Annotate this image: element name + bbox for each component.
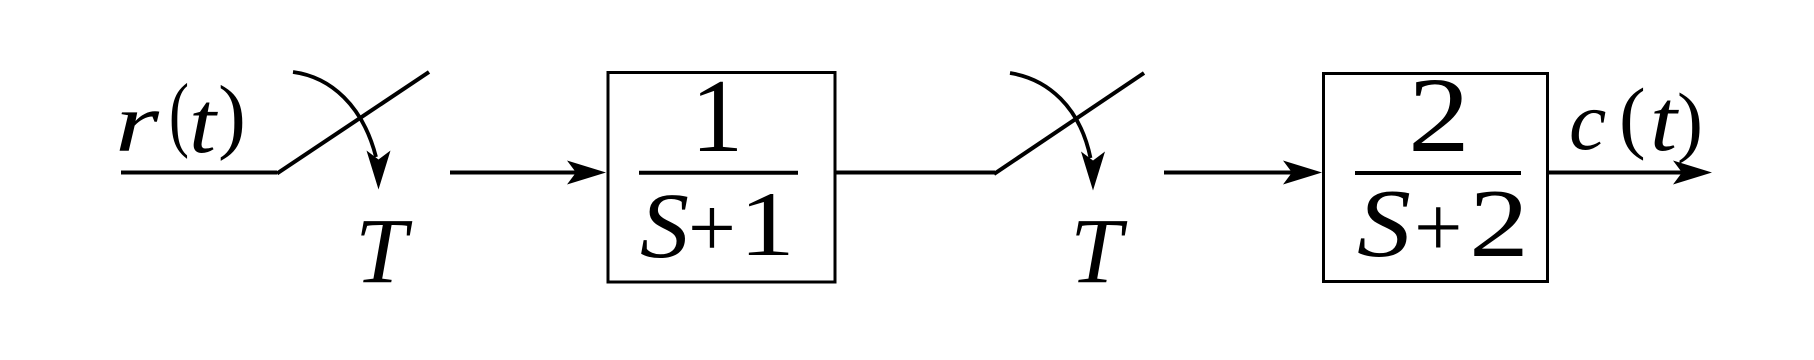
svg-text:T: T bbox=[1070, 200, 1128, 303]
svg-text:1: 1 bbox=[691, 57, 744, 174]
svg-text:S: S bbox=[1357, 170, 1411, 277]
block G2 denominator S+2 bbox=[1357, 170, 1529, 277]
wire block G2 to output c(t) bbox=[1549, 161, 1712, 185]
node r(t) input label bbox=[115, 67, 246, 172]
wire input to sampler T1 bbox=[121, 171, 277, 175]
svg-text:1: 1 bbox=[739, 173, 795, 275]
svg-text:+: + bbox=[688, 181, 736, 275]
svg-text:t: t bbox=[1650, 73, 1680, 170]
svg-text:t: t bbox=[189, 75, 219, 172]
svg-text:(: ( bbox=[169, 67, 189, 160]
svg-text:S: S bbox=[640, 175, 689, 278]
sampler T2 sampling arc bbox=[1010, 73, 1105, 191]
sampler T1 switch arm bbox=[277, 72, 429, 174]
svg-text:+: + bbox=[1414, 179, 1463, 275]
block G2 box bbox=[1324, 74, 1548, 282]
svg-text:T: T bbox=[355, 200, 413, 303]
node c(t) output label bbox=[1569, 73, 1703, 170]
wire sampler T2 to block G2 bbox=[1164, 161, 1322, 185]
wire block G1 to sampler T2 bbox=[836, 171, 995, 175]
svg-text:(: ( bbox=[1619, 74, 1646, 162]
block G1 denominator S+1 bbox=[640, 173, 795, 278]
block G2 fraction bar bbox=[1355, 171, 1521, 175]
svg-text:2: 2 bbox=[1469, 170, 1529, 277]
sampler T1 sampling arc bbox=[293, 72, 391, 190]
wire sampler T1 to block G1 bbox=[450, 161, 606, 185]
block G1 fraction bar bbox=[639, 171, 798, 175]
svg-text:): ) bbox=[1677, 77, 1703, 164]
svg-text:c: c bbox=[1569, 75, 1606, 168]
svg-text:2: 2 bbox=[1408, 57, 1470, 175]
sampler T2 switch arm bbox=[994, 73, 1144, 174]
svg-text:r: r bbox=[115, 77, 159, 170]
svg-text:): ) bbox=[218, 69, 246, 162]
block G1 box bbox=[608, 73, 835, 283]
